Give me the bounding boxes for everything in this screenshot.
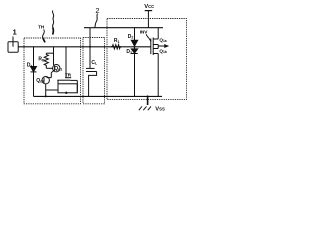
wire Qd2 emitter to TR xyxy=(46,89,58,91)
svg-text:D1: D1 xyxy=(27,63,33,69)
dashed block box C (right, IC) xyxy=(107,19,187,100)
junction ground stub at VSS rail xyxy=(147,95,149,97)
wire VSS bottom rail xyxy=(34,95,163,97)
junction CL wire at TH rail xyxy=(89,46,91,48)
svg-text:Rth: Rth xyxy=(38,57,45,63)
diode D2 xyxy=(131,28,137,46)
resistor Rth xyxy=(44,47,53,69)
dashed block box A (left) xyxy=(24,38,81,104)
dashed block box B (middle, CL) xyxy=(83,38,105,104)
inverter channel bar xyxy=(152,38,154,56)
inverter gate bar xyxy=(150,39,152,55)
wire main horizontal rail (TH node) xyxy=(18,46,151,48)
svg-text:2: 2 xyxy=(95,6,99,15)
lead line squiggle right of TH xyxy=(52,11,53,28)
diode D3 xyxy=(131,47,137,97)
capacitor CL xyxy=(86,28,97,97)
svg-text:Q1b: Q1b xyxy=(159,49,166,55)
node 1 terminal box xyxy=(8,37,18,53)
svg-text:Q1a: Q1a xyxy=(159,38,166,44)
transistor Q1b (NMOS of INV) xyxy=(153,49,158,97)
svg-text:INV: INV xyxy=(140,29,148,35)
junction Qd2 emitter at VSS rail xyxy=(45,95,47,97)
diode D1 xyxy=(31,47,37,97)
ground VSS xyxy=(139,96,151,110)
transistor Qd2 xyxy=(42,77,51,97)
transistor Q1a (PMOS of INV) xyxy=(153,28,158,45)
svg-text:D3: D3 xyxy=(126,49,132,55)
svg-text:Qd1: Qd1 xyxy=(54,66,62,72)
svg-text:TH: TH xyxy=(38,24,45,29)
transistor TR (FET symbol) xyxy=(57,47,77,94)
svg-text:CL: CL xyxy=(91,60,98,66)
svg-text:TR: TR xyxy=(65,72,72,78)
transistor Qd1 xyxy=(51,65,60,78)
lead line for INV label xyxy=(146,34,151,41)
wire INV output node xyxy=(158,45,168,49)
lead line for node 2 xyxy=(95,14,98,28)
VCC power symbol xyxy=(145,11,153,28)
junction diodes at TH rail xyxy=(134,46,136,48)
svg-text:D2: D2 xyxy=(128,34,134,40)
lead line from TH into box xyxy=(43,30,45,39)
svg-text:R1: R1 xyxy=(114,38,120,44)
resistor R1 xyxy=(111,45,122,49)
wire VCC top rail xyxy=(84,27,163,29)
svg-text:Qd2: Qd2 xyxy=(36,78,44,84)
